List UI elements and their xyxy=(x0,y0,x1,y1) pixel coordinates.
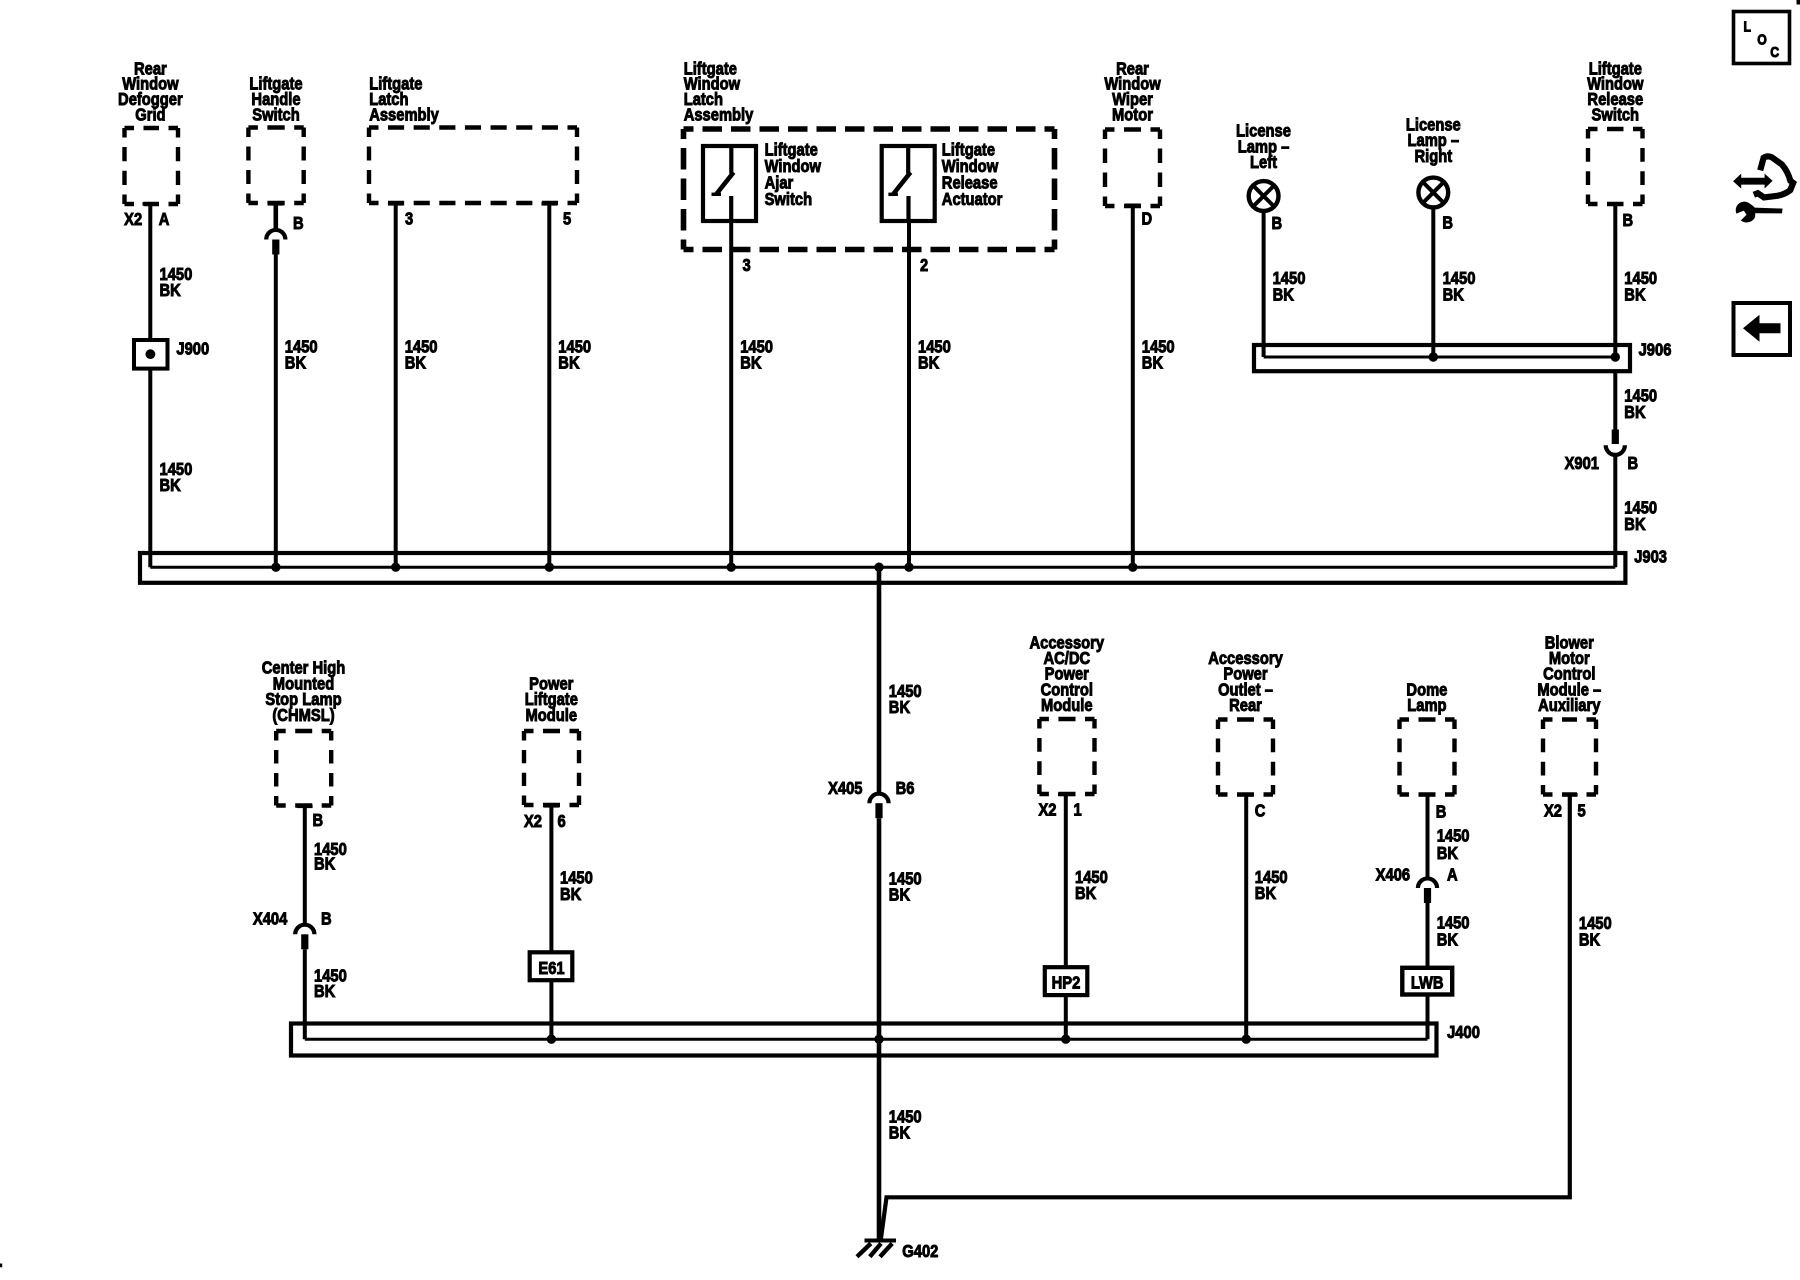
svg-text:J906: J906 xyxy=(1639,340,1672,360)
pin label X2 | 5 (blower motor module) xyxy=(1544,801,1586,821)
pin label B (handle switch) xyxy=(293,214,304,234)
svg-text:BK: BK xyxy=(740,353,761,373)
junction: HP2 at J400 xyxy=(1061,1035,1070,1044)
pin label B (dome lamp) xyxy=(1436,802,1447,822)
wire label 1450 BK (CHMSL lower) xyxy=(314,966,347,1001)
wire: J400 to ground G402 xyxy=(877,1039,882,1240)
switch: Liftgate Window Release Actuator (sub-box and blade) xyxy=(882,146,935,221)
pin label 3 (latch assembly) xyxy=(405,209,413,229)
junction: latch pin 5 at J903 xyxy=(545,563,554,572)
svg-text:Assembly: Assembly xyxy=(369,105,439,125)
wire label 1450 BK (dome lamp upper) xyxy=(1437,826,1470,863)
in-line connector X404 xyxy=(295,925,314,950)
pin label B (CHMSL) xyxy=(313,811,324,831)
svg-text:X2: X2 xyxy=(524,812,542,832)
svg-text:BK: BK xyxy=(314,854,335,874)
svg-text:Switch: Switch xyxy=(1592,105,1640,125)
wire label 1450 BK (accessory power outlet) xyxy=(1255,868,1288,904)
component box: Power Liftgate Module xyxy=(524,674,579,808)
svg-text:BK: BK xyxy=(314,982,335,1002)
svg-text:BK: BK xyxy=(918,353,939,373)
svg-text:BK: BK xyxy=(889,885,910,905)
svg-text:B: B xyxy=(1436,802,1447,822)
label X406 | A xyxy=(1376,865,1458,885)
svg-text:Module: Module xyxy=(1041,696,1093,716)
component: License Lamp - Left (bulb symbol) xyxy=(1236,121,1291,211)
wire label 1450 BK (blower motor module) xyxy=(1579,914,1612,950)
svg-text:2: 2 xyxy=(920,256,928,276)
component box: Rear Window Defogger Grid xyxy=(118,59,183,206)
switch: Liftgate Window Ajar Switch (sub-box and blade) xyxy=(703,146,756,221)
wire: X405 to J400 bus xyxy=(877,818,882,1039)
pin label 2 (release actuator) xyxy=(920,256,928,276)
splice HP2 box xyxy=(1045,967,1088,995)
wire label 1450 BK (dome lamp lower) xyxy=(1437,913,1470,950)
svg-text:Right: Right xyxy=(1414,147,1452,167)
svg-text:A: A xyxy=(1447,865,1458,885)
wire: accessory power outlet to J400 bus xyxy=(1244,796,1248,1039)
component box: Liftgate Window Release Switch xyxy=(1587,59,1644,206)
splice E61 box xyxy=(530,952,573,980)
svg-text:Auxiliary: Auxiliary xyxy=(1538,696,1601,716)
pin label X2 | A (defogger) xyxy=(124,210,169,230)
wire: J906 to X901 xyxy=(1613,371,1617,430)
component box: Rear Window Wiper Motor xyxy=(1104,59,1161,207)
svg-text:B: B xyxy=(321,909,332,929)
svg-text:BK: BK xyxy=(560,885,581,905)
wire label 1450 BK (wiper motor) xyxy=(1142,337,1175,373)
svg-text:5: 5 xyxy=(563,209,571,229)
component box: Center High Mounted Stop Lamp (CHMSL) xyxy=(262,658,346,808)
svg-text:B: B xyxy=(1442,213,1453,233)
pin label 5 (latch assembly) xyxy=(563,209,571,229)
svg-text:BK: BK xyxy=(1624,285,1645,305)
wire label 1450 BK (defogger lower) xyxy=(160,460,193,496)
wire: latch assembly pin 3 to J903 bus xyxy=(394,205,398,567)
wire: blower motor module down and across to ground stem xyxy=(881,796,1570,1241)
svg-text:Module: Module xyxy=(526,706,578,726)
splice J900 box on defogger wire xyxy=(134,340,168,369)
wire: LWB to J400 bus xyxy=(1426,995,1430,1040)
junction: power liftgate module at J400 xyxy=(547,1035,556,1044)
svg-text:L: L xyxy=(1744,18,1752,34)
svg-text:BK: BK xyxy=(160,281,181,301)
svg-text:J900: J900 xyxy=(176,339,209,359)
wire: ajar switch to J903 bus xyxy=(729,221,733,567)
junction: accessory power outlet at J400 xyxy=(1242,1035,1251,1044)
svg-text:1: 1 xyxy=(1074,800,1082,820)
svg-text:Lamp: Lamp xyxy=(1407,696,1446,716)
svg-text:B: B xyxy=(1628,454,1639,474)
wire: X404 to J400 bus xyxy=(303,949,307,1039)
svg-text:C: C xyxy=(1255,801,1266,821)
svg-text:BK: BK xyxy=(160,476,181,496)
component box: Accessory AC/DC Power Control Module xyxy=(1030,633,1105,796)
svg-text:X404: X404 xyxy=(253,909,288,929)
pin label B (license lamp right) xyxy=(1442,213,1453,233)
svg-text:Motor: Motor xyxy=(1112,105,1153,125)
label G402 xyxy=(902,1242,938,1262)
wire label 1450 BK (license lamp right) xyxy=(1443,269,1476,305)
icon: back navigation arrow box xyxy=(1734,303,1791,355)
label J906 xyxy=(1639,340,1672,360)
svg-text:J903: J903 xyxy=(1634,547,1667,567)
svg-text:D: D xyxy=(1142,209,1153,229)
wire: J903 to X405 xyxy=(877,567,882,792)
svg-text:BK: BK xyxy=(1624,514,1645,534)
junction: release actuator at J903 xyxy=(904,563,913,572)
wire: release switch to J906 splice pack xyxy=(1613,204,1617,357)
svg-text:5: 5 xyxy=(1578,801,1586,821)
svg-text:Actuator: Actuator xyxy=(942,189,1003,209)
svg-text:HP2: HP2 xyxy=(1052,973,1081,993)
svg-text:(CHMSL): (CHMSL) xyxy=(272,706,334,726)
svg-text:X2: X2 xyxy=(124,210,142,230)
svg-text:X406: X406 xyxy=(1376,865,1410,885)
splice pack J400 (bus) xyxy=(291,1024,1437,1056)
label J903 xyxy=(1634,547,1667,567)
pin label D (wiper motor) xyxy=(1142,209,1153,229)
wire: wiper motor to J903 bus xyxy=(1131,207,1135,568)
wire: license lamp left to J906 splice pack xyxy=(1262,213,1266,357)
wire label 1450 BK (latch pin 3) xyxy=(405,337,438,373)
component box: Accessory Power Outlet - Rear xyxy=(1208,649,1283,797)
svg-text:Switch: Switch xyxy=(765,189,813,209)
label: Liftgate Window Release Actuator xyxy=(942,140,1003,209)
svg-text:B: B xyxy=(1623,211,1634,231)
wire: E61 to J400 bus xyxy=(549,980,553,1039)
svg-text:G402: G402 xyxy=(902,1242,938,1262)
svg-text:X2: X2 xyxy=(1038,800,1056,820)
junction: ground feed at J400 xyxy=(874,1035,883,1044)
component box: Liftgate Window Latch Assembly (outer dashed) xyxy=(684,59,1055,249)
svg-text:Grid: Grid xyxy=(135,105,165,125)
component box: Liftgate Latch Assembly xyxy=(369,74,577,205)
junction: ajar switch at J903 xyxy=(727,563,736,572)
wire: license lamp right to J906 splice pack xyxy=(1431,209,1435,357)
junction: center ground feed at J903 xyxy=(874,563,883,572)
pin label 3 (ajar switch) xyxy=(743,256,751,276)
svg-text:BK: BK xyxy=(1075,884,1096,904)
wire label 1450 BK (X901 to J903) xyxy=(1624,498,1657,534)
junction: wiper motor at J903 xyxy=(1128,563,1137,572)
component: License Lamp - Right (bulb symbol) xyxy=(1406,115,1461,207)
wire label 1450 BK (J903 to X405) xyxy=(889,681,922,717)
pin label C (accessory power outlet) xyxy=(1255,801,1266,821)
svg-text:X2: X2 xyxy=(1544,801,1562,821)
ground symbol G402 xyxy=(857,1241,896,1257)
wire: latch assembly pin 5 to J903 bus xyxy=(547,205,551,567)
svg-text:Assembly: Assembly xyxy=(684,105,754,125)
component box: Liftgate Handle Switch xyxy=(248,74,303,205)
wire: HP2 to J400 bus xyxy=(1064,995,1068,1039)
icon: harness routing (double arrow, outline, wrench) xyxy=(1733,156,1793,222)
wire: release actuator to J903 bus xyxy=(907,221,911,567)
svg-text:J400: J400 xyxy=(1447,1022,1480,1042)
pin label B (license lamp left) xyxy=(1272,214,1283,234)
svg-text:BK: BK xyxy=(1624,402,1645,422)
wire: handle switch to J903 bus xyxy=(274,255,278,568)
wire label 1450 BK (J400 to G402) xyxy=(889,1107,922,1143)
wire: power liftgate module to E61 xyxy=(549,807,553,952)
wire: accessory AC/DC module to HP2 xyxy=(1064,796,1068,968)
svg-text:BK: BK xyxy=(1579,930,1600,950)
svg-text:6: 6 xyxy=(558,812,566,832)
wire label 1450 BK (license lamp left) xyxy=(1273,269,1306,305)
svg-text:BK: BK xyxy=(889,698,910,718)
junction: right lamp at J906 xyxy=(1429,352,1438,361)
label: Liftgate Window Ajar Switch xyxy=(765,140,822,209)
svg-text:BK: BK xyxy=(1437,844,1458,864)
svg-text:X405: X405 xyxy=(828,779,862,799)
svg-text:E61: E61 xyxy=(538,958,564,978)
svg-text:BK: BK xyxy=(889,1123,910,1143)
wire: defogger pin A to J903 bus xyxy=(148,204,152,567)
wire label 1450 BK (defogger upper) xyxy=(160,265,193,301)
svg-text:3: 3 xyxy=(405,209,413,229)
wire: X406 to LWB xyxy=(1426,903,1430,968)
pin label B (release switch) xyxy=(1623,211,1634,231)
svg-text:B6: B6 xyxy=(896,779,915,799)
svg-text:BK: BK xyxy=(1255,884,1276,904)
splice pack J906 (bus) xyxy=(1254,345,1630,371)
splice pack J903 (main ground bus) xyxy=(140,553,1625,583)
svg-text:X901: X901 xyxy=(1565,454,1599,474)
svg-text:Rear: Rear xyxy=(1229,696,1262,716)
wire label 1450 BK (release actuator) xyxy=(918,337,951,373)
svg-text:3: 3 xyxy=(743,256,751,276)
label J900 xyxy=(176,339,209,359)
wire: X901 to J903 bus xyxy=(1613,456,1617,567)
svg-text:B: B xyxy=(293,214,304,234)
svg-text:Switch: Switch xyxy=(252,105,300,125)
svg-text:B: B xyxy=(313,811,324,831)
in-line connector X405 xyxy=(869,794,888,819)
wire label 1450 BK (X405 to J400) xyxy=(889,869,922,905)
splice LWB box xyxy=(1402,968,1452,995)
svg-text:A: A xyxy=(159,210,170,230)
in-line connector on handle switch wire xyxy=(266,205,285,255)
svg-text:O: O xyxy=(1757,31,1767,47)
in-line connector X901 (male stub over female cup) xyxy=(1606,430,1625,455)
wire label 1450 BK (handle switch) xyxy=(285,337,318,373)
wire label 1450 BK (accessory AC/DC module) xyxy=(1075,868,1108,904)
svg-text:B: B xyxy=(1272,214,1283,234)
svg-text:LWB: LWB xyxy=(1411,973,1444,993)
label X405 | B6 xyxy=(828,779,914,799)
wire: CHMSL to X404 xyxy=(303,808,307,924)
in-line connector X406 xyxy=(1418,878,1437,903)
label X404 | B xyxy=(253,909,332,929)
wire: dome lamp to X406 xyxy=(1426,796,1430,877)
svg-text:BK: BK xyxy=(1273,285,1294,305)
component box: Blower Motor Control Module - Auxiliary xyxy=(1537,633,1601,797)
pin label X2 | 1 (accessory AC/DC module) xyxy=(1038,800,1081,820)
pin label X2 | 6 (power liftgate module) xyxy=(524,812,566,832)
wire label 1450 BK (latch pin 5) xyxy=(558,337,591,373)
icon: LOC reference box xyxy=(1734,12,1790,64)
wire label 1450 BK (power liftgate module) xyxy=(560,868,593,904)
wire label 1450 BK (ajar switch) xyxy=(740,337,773,373)
junction: latch pin 3 at J903 xyxy=(391,563,400,572)
svg-text:BK: BK xyxy=(405,353,426,373)
label X901 | B xyxy=(1565,454,1639,474)
svg-text:C: C xyxy=(1770,44,1779,60)
svg-text:BK: BK xyxy=(285,353,306,373)
svg-text:Left: Left xyxy=(1250,153,1277,173)
wire label 1450 BK (J906 to X901) xyxy=(1624,386,1657,422)
label J400 xyxy=(1447,1022,1480,1042)
svg-text:BK: BK xyxy=(1437,930,1458,950)
wire label 1450 BK (CHMSL upper) xyxy=(314,839,347,873)
junction: handle switch at J903 xyxy=(271,563,280,572)
wire label 1450 BK (release switch) xyxy=(1624,269,1657,305)
svg-text:BK: BK xyxy=(1142,353,1163,373)
svg-text:BK: BK xyxy=(1443,285,1464,305)
component box: Dome Lamp xyxy=(1400,680,1455,797)
junction: release switch wire at J906 xyxy=(1611,352,1620,361)
svg-text:BK: BK xyxy=(558,353,579,373)
